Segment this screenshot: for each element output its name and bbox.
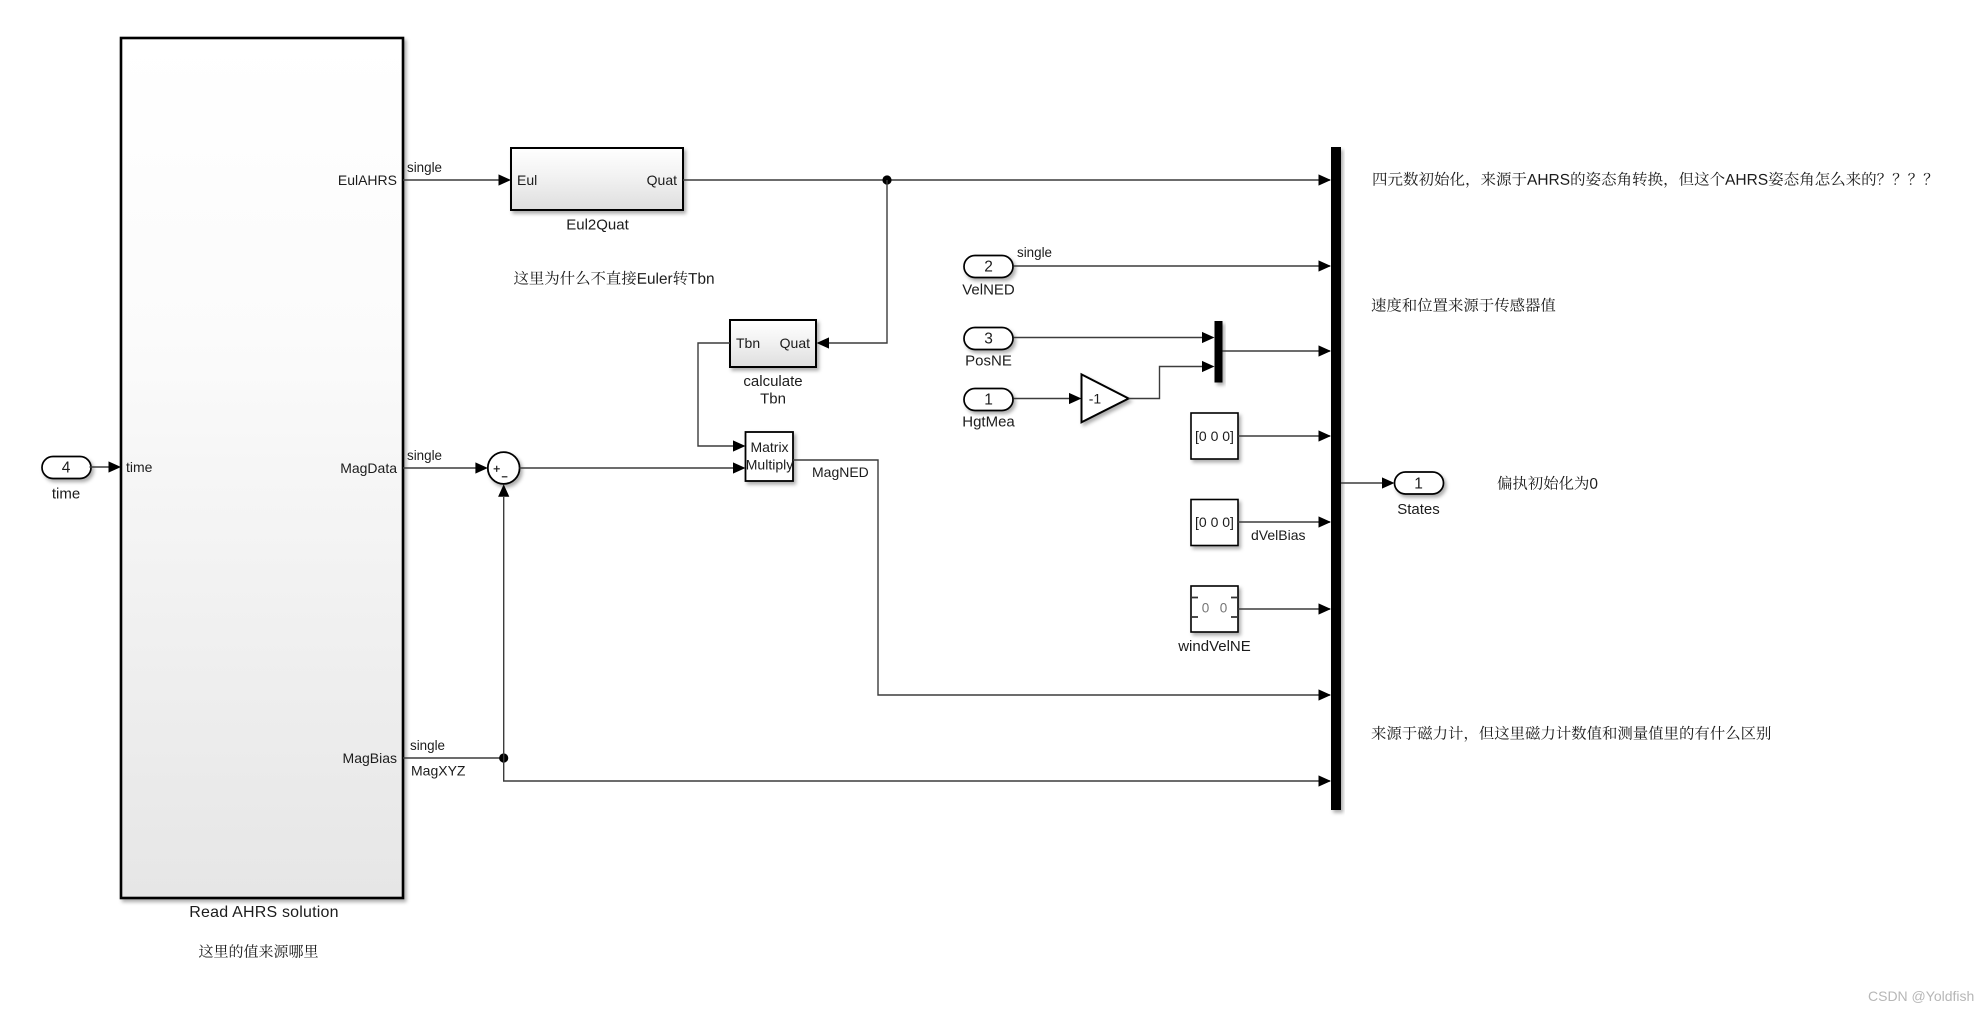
svg-text:Eul2Quat: Eul2Quat [566, 217, 629, 234]
wire Quat output to mux input 1 [683, 179, 1330, 181]
constant block windVelNE [1191, 586, 1238, 632]
junction node quat branch [882, 175, 891, 184]
svg-text:1: 1 [1414, 476, 1423, 493]
wire windVelNE constant to mux input 6 [1238, 608, 1330, 610]
subsystem block Eul2Quat [511, 148, 683, 210]
arrowhead into States outport [1382, 477, 1395, 488]
annotation: bias initialized to 0 [1498, 476, 1598, 490]
wire MagBias from subsystem [403, 757, 504, 759]
constant block [0 0 0] dVelBias [1191, 500, 1238, 546]
svg-text:1: 1 [984, 392, 993, 409]
arrowhead into mux (VelNED) [1319, 260, 1332, 271]
arrowhead into gain [1069, 393, 1082, 404]
sum plus sign [494, 466, 500, 472]
wire MagData to sum [403, 467, 477, 469]
inport 1 HgtMea [964, 389, 1013, 411]
wire small mux output to mux input 3 [1223, 350, 1331, 352]
wire branch down to calculate Tbn [827, 180, 887, 343]
annotation: quaternion initialization note [1374, 172, 1931, 188]
svg-text:[0 0 0]: [0 0 0] [1195, 428, 1234, 444]
sum minus sign [502, 476, 508, 478]
wire time inport to subsystem [90, 466, 112, 468]
wire constant1 to mux input 4 [1238, 435, 1330, 437]
svg-text:0: 0 [1220, 601, 1228, 616]
svg-text:-1: -1 [1089, 391, 1102, 407]
arrowhead into mux (quat) [1319, 174, 1332, 185]
arrowhead into mux (dVelBias) [1319, 516, 1332, 527]
inport 3 PosNE [964, 328, 1013, 350]
svg-text:dVelBias: dVelBias [1251, 527, 1305, 543]
svg-text:MagData: MagData [340, 460, 397, 476]
svg-text:single: single [410, 738, 445, 753]
svg-text:Matrix: Matrix [750, 439, 788, 455]
wire gain output to small mux in2 [1129, 367, 1204, 399]
annotation: where do these values come from [199, 944, 318, 958]
annotation: velocity/position from sensors [1372, 298, 1556, 312]
arrowhead into mux (const1) [1319, 430, 1332, 441]
wire EulAHRS to Eul2Quat [403, 179, 500, 181]
arrowhead into Eul2Quat [499, 174, 512, 185]
arrowhead into Matrix Multiply in1 [733, 440, 746, 451]
arrowhead into mux (windVelNE) [1319, 603, 1332, 614]
svg-text:CSDN @Yoldfish: CSDN @Yoldfish [1868, 988, 1974, 1004]
wire MagXYZ down and right to mux input 8 [504, 758, 1330, 781]
arrowhead into mux (MagXYZ) [1319, 775, 1332, 786]
block Matrix Multiply [746, 432, 794, 481]
svg-text:Quat: Quat [647, 172, 677, 188]
svg-text:[0 0 0]: [0 0 0] [1195, 514, 1234, 530]
mux block States (8 inputs) [1331, 147, 1341, 810]
sum block (MagData - MagBias) [488, 452, 520, 484]
svg-text:calculate: calculate [743, 373, 802, 390]
svg-text:HgtMea: HgtMea [962, 414, 1015, 431]
inport 2 VelNED [964, 256, 1013, 278]
wire VelNED to mux input 2 [1014, 265, 1331, 267]
svg-text:single: single [1017, 245, 1052, 260]
svg-text:0: 0 [1202, 601, 1210, 616]
annotation: why not Euler to Tbn directly [514, 271, 714, 285]
svg-text:Tbn: Tbn [760, 391, 786, 408]
constant block [0 0 0] (attitude err) [1191, 413, 1238, 459]
svg-text:Multiply: Multiply [746, 457, 793, 473]
svg-text:2: 2 [984, 259, 993, 276]
svg-text:3: 3 [984, 331, 993, 348]
wire MagNED from Matrix Multiply to mux input 7 [793, 460, 1330, 695]
svg-text:single: single [407, 160, 442, 175]
arrowhead into small mux in1 [1202, 332, 1215, 343]
gain block -1 [1082, 374, 1129, 422]
junction node MagBias branch [499, 753, 508, 762]
arrowhead into mux (PosNE/Hgt) [1319, 345, 1332, 356]
svg-text:Quat: Quat [780, 335, 810, 351]
mux block (PosNE,HgtMea) [1215, 321, 1223, 383]
svg-text:windVelNE: windVelNE [1177, 638, 1251, 655]
wire Tbn output to Matrix Multiply in1 [698, 343, 735, 446]
svg-text:EulAHRS: EulAHRS [338, 172, 397, 188]
svg-text:PosNE: PosNE [965, 353, 1012, 370]
svg-text:time: time [52, 486, 80, 503]
svg-text:States: States [1397, 501, 1440, 518]
svg-text:Eul: Eul [517, 172, 537, 188]
svg-text:single: single [407, 448, 442, 463]
inport 4 time [42, 457, 91, 479]
arrowhead into subsystem time [109, 461, 122, 472]
subsystem block Read AHRS solution [121, 38, 403, 898]
clipped bracket marks windVelNE [1192, 598, 1237, 618]
wire PosNE to small mux in1 [1014, 337, 1205, 339]
wire dVelBias constant to mux input 5 [1238, 521, 1330, 523]
svg-text:Read AHRS solution: Read AHRS solution [189, 904, 338, 921]
arrowhead into mux (MagNED) [1319, 689, 1332, 700]
arrowhead into sum [475, 462, 488, 473]
svg-text:time: time [126, 459, 153, 475]
annotation: from magnetometer note [1372, 726, 1771, 742]
svg-text:MagNED: MagNED [812, 464, 869, 480]
wire MagBias up to sum minus input [503, 497, 505, 758]
subsystem block calculate Tbn [730, 320, 816, 367]
outport 1 States [1395, 472, 1444, 494]
svg-text:4: 4 [62, 460, 71, 477]
wire HgtMea to gain [1014, 398, 1072, 400]
arrowhead into Matrix Multiply in2 [733, 462, 746, 473]
arrowhead into small mux in2 [1202, 361, 1215, 372]
wire mux output to States outport [1341, 482, 1384, 484]
svg-text:VelNED: VelNED [962, 282, 1015, 299]
svg-text:MagBias: MagBias [343, 750, 397, 766]
arrowhead into calculate Tbn (Quat, pointing left) [817, 337, 830, 348]
svg-text:Tbn: Tbn [736, 335, 760, 351]
svg-text:MagXYZ: MagXYZ [411, 763, 466, 779]
wire sum output to Matrix Multiply in2 [520, 467, 736, 469]
arrowhead into sum bottom (up) [498, 484, 509, 497]
